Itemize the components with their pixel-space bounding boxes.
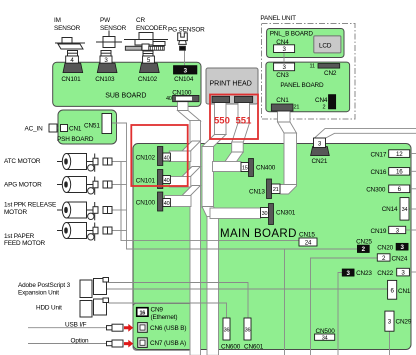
connector CN14 bbox=[400, 198, 409, 221]
Option plug icon bbox=[107, 340, 124, 347]
print head connector 551 bbox=[235, 96, 253, 102]
svg-text:CN301: CN301 bbox=[276, 210, 296, 217]
wire PG sensor to CN104 bbox=[184, 50, 186, 66]
wire CN51 bus to CN25 bbox=[112, 123, 357, 249]
svg-text:PG SENSOR: PG SENSOR bbox=[168, 27, 205, 34]
main board bbox=[133, 144, 411, 350]
ribbon branch to CN301 bbox=[210, 208, 261, 219]
connector CN300 bbox=[389, 185, 410, 193]
connector CN100 (sub) bbox=[173, 95, 199, 101]
svg-text:34: 34 bbox=[322, 335, 328, 341]
svg-text:21: 21 bbox=[273, 187, 279, 193]
svg-text:FEED MOTOR: FEED MOTOR bbox=[4, 240, 46, 247]
svg-text:CN15: CN15 bbox=[299, 232, 315, 239]
wire CN14 to right edge bbox=[409, 208, 416, 210]
connector CN1 (PSH) bbox=[61, 125, 68, 132]
HDD unit connector icon bbox=[80, 298, 109, 317]
connector CN104 (sub, black) bbox=[173, 66, 197, 75]
connector CN100 (main) bbox=[158, 192, 163, 211]
svg-text:SUB BOARD: SUB BOARD bbox=[105, 93, 146, 100]
connector CN24 bbox=[377, 254, 390, 261]
svg-text:16: 16 bbox=[396, 169, 403, 176]
wire CN17 to right edge bbox=[410, 153, 416, 155]
svg-text:USB I/F: USB I/F bbox=[65, 322, 87, 329]
svg-text:36: 36 bbox=[245, 328, 251, 334]
svg-text:CN600: CN600 bbox=[221, 344, 241, 351]
svg-text:40: 40 bbox=[166, 96, 172, 102]
connector CN2 (panel) bbox=[318, 64, 340, 69]
connector CN23 (black) bbox=[342, 269, 354, 276]
sub board bbox=[53, 62, 201, 106]
connector CN102 (main) bbox=[158, 147, 163, 166]
wire USB I/F bbox=[28, 327, 107, 329]
wire CN24 bbox=[311, 258, 378, 355]
connector CN17 bbox=[389, 150, 410, 158]
svg-text:CN500: CN500 bbox=[316, 328, 336, 335]
connector CN16 bbox=[389, 168, 410, 176]
red highlight box print head bbox=[210, 95, 258, 140]
svg-text:CN25: CN25 bbox=[356, 238, 372, 245]
svg-text:CN1: CN1 bbox=[276, 97, 289, 104]
svg-text:CN100: CN100 bbox=[136, 200, 156, 207]
svg-text:CN20: CN20 bbox=[377, 244, 393, 251]
connector CN6 USB B bbox=[138, 323, 148, 333]
svg-text:SENSOR: SENSOR bbox=[100, 25, 127, 32]
panel board bbox=[266, 62, 350, 112]
connector CN29 bbox=[385, 311, 394, 331]
svg-text:CN17: CN17 bbox=[371, 152, 387, 159]
connector CN4 (PNL_B) bbox=[274, 45, 295, 53]
wire AC_IN to PSH board bbox=[57, 127, 60, 129]
connector CN600 bbox=[223, 318, 230, 340]
connector CN21 bbox=[311, 147, 330, 156]
wire CN16 to right edge bbox=[410, 170, 416, 172]
ribbon branch to CN102 bbox=[182, 141, 201, 151]
svg-text:CN104: CN104 bbox=[174, 76, 194, 83]
svg-text:ENCODER: ENCODER bbox=[136, 25, 167, 32]
svg-text:CN601: CN601 bbox=[244, 344, 264, 351]
connector CN9 ethernet bbox=[137, 308, 148, 317]
svg-text:11: 11 bbox=[310, 63, 315, 69]
connector CN1 (panel) bbox=[271, 104, 293, 111]
svg-text:40: 40 bbox=[164, 178, 170, 184]
Adobe PS3 unit connector icon bbox=[80, 278, 109, 298]
svg-text:PRINT HEAD: PRINT HEAD bbox=[210, 81, 252, 88]
svg-text:Expansion Unit: Expansion Unit bbox=[18, 289, 59, 296]
connector CN103 (sub) bbox=[97, 63, 117, 73]
svg-text:CN51: CN51 bbox=[84, 123, 100, 130]
svg-text:PANEL UNIT: PANEL UNIT bbox=[260, 15, 296, 22]
svg-text:40: 40 bbox=[164, 155, 170, 161]
svg-text:MOTOR: MOTOR bbox=[4, 209, 27, 216]
svg-text:CN9: CN9 bbox=[151, 307, 164, 314]
CR encoder icon bbox=[124, 33, 168, 51]
APG motor bbox=[57, 177, 112, 195]
1st paper feed motor bbox=[57, 223, 112, 241]
svg-text:CN100: CN100 bbox=[172, 89, 192, 96]
sensor connector stacks bbox=[68, 51, 154, 57]
svg-text:21: 21 bbox=[294, 105, 300, 111]
connector CN601 bbox=[244, 318, 251, 340]
svg-text:CN7 (USB A): CN7 (USB A) bbox=[150, 340, 186, 347]
svg-text:Option: Option bbox=[71, 338, 90, 345]
wire motor stubs bbox=[112, 161, 127, 163]
PG sensor icon bbox=[178, 33, 188, 50]
svg-text:SENSOR: SENSOR bbox=[54, 25, 81, 32]
wire panel CN4 to CN3 bbox=[283, 53, 285, 64]
wire CN23 bbox=[338, 273, 342, 355]
svg-text:36: 36 bbox=[224, 328, 230, 334]
print head bbox=[206, 68, 258, 104]
PNL_B board bbox=[267, 29, 344, 58]
svg-text:1st PPK RELEASE: 1st PPK RELEASE bbox=[4, 202, 56, 209]
svg-text:34: 34 bbox=[402, 207, 408, 213]
svg-text:CN101: CN101 bbox=[61, 76, 81, 83]
svg-text:ATC MOTOR: ATC MOTOR bbox=[4, 158, 41, 165]
wire Adobe unit to CN1 bbox=[107, 288, 388, 290]
svg-text:PNL_B BOARD: PNL_B BOARD bbox=[270, 31, 314, 38]
svg-text:30: 30 bbox=[262, 211, 268, 217]
svg-text:15: 15 bbox=[242, 165, 248, 171]
USB I/F plug icon bbox=[107, 324, 124, 331]
svg-text:CN3: CN3 bbox=[276, 72, 289, 79]
svg-text:Adobe PostScript 3: Adobe PostScript 3 bbox=[18, 282, 71, 289]
wire motor bus B vertical bbox=[120, 162, 122, 241]
svg-text:CN29: CN29 bbox=[396, 319, 412, 326]
wire CN19 to right edge bbox=[406, 229, 416, 231]
svg-text:1st PAPER: 1st PAPER bbox=[4, 233, 35, 240]
svg-text:LCD: LCD bbox=[319, 43, 332, 50]
svg-text:APG MOTOR: APG MOTOR bbox=[4, 181, 42, 188]
PW sensor icon bbox=[96, 31, 122, 48]
svg-text:CN14: CN14 bbox=[382, 206, 398, 213]
svg-text:CN24: CN24 bbox=[392, 255, 408, 262]
wire motor bus A to CN15 bbox=[121, 162, 299, 241]
connector CN15 bbox=[299, 238, 317, 246]
PSH board bbox=[58, 110, 117, 144]
1st PPK release motor bbox=[57, 202, 112, 220]
wire branch down from CN25 bus bbox=[284, 249, 286, 355]
svg-text:CN6 (USB B): CN6 (USB B) bbox=[150, 325, 186, 332]
svg-text:CN4: CN4 bbox=[315, 97, 328, 104]
USB I/F red arrow bbox=[124, 324, 133, 332]
svg-text:CN22: CN22 bbox=[377, 270, 393, 277]
red highlight box CN102/CN101 bbox=[131, 125, 187, 186]
print head connector 550 bbox=[212, 96, 230, 102]
ribbon cable from sub board CN100 bbox=[178, 101, 189, 111]
ATC motor bbox=[57, 154, 112, 172]
connector CN400 bbox=[241, 163, 249, 172]
ribbon branch to CN101 bbox=[182, 167, 201, 177]
svg-text:16: 16 bbox=[139, 310, 145, 316]
ribbon branch to main CN100 bbox=[182, 186, 201, 196]
connector CN51 (PSH) bbox=[102, 114, 112, 134]
wire CN29 down bbox=[389, 331, 391, 355]
svg-text:CN4: CN4 bbox=[276, 39, 289, 46]
svg-text:CN102: CN102 bbox=[138, 76, 158, 83]
svg-text:CN101: CN101 bbox=[136, 178, 156, 185]
connector AC_IN bbox=[49, 124, 57, 132]
ribbon cable from print head 550 bbox=[215, 103, 227, 135]
connector CN25 (black) bbox=[357, 245, 369, 253]
svg-text:CN2: CN2 bbox=[324, 70, 337, 77]
svg-text:CN23: CN23 bbox=[356, 270, 372, 277]
svg-text:(Ethernet): (Ethernet) bbox=[151, 314, 178, 321]
svg-text:24: 24 bbox=[305, 239, 312, 246]
wire HDD to CN600 bbox=[109, 303, 227, 318]
LCD bbox=[314, 36, 341, 53]
connector CN101 (sub) bbox=[63, 63, 83, 73]
svg-text:CN13: CN13 bbox=[249, 189, 265, 196]
svg-text:PW: PW bbox=[100, 17, 111, 24]
svg-text:2: 2 bbox=[323, 105, 326, 111]
svg-text:12: 12 bbox=[396, 151, 403, 158]
wires CN21 off right edge bbox=[315, 129, 416, 138]
svg-text:CN1: CN1 bbox=[398, 288, 411, 295]
connector CN301 bbox=[261, 208, 269, 218]
svg-text:CN102: CN102 bbox=[136, 155, 156, 162]
svg-text:CN103: CN103 bbox=[95, 76, 115, 83]
svg-text:CN300: CN300 bbox=[366, 187, 386, 194]
svg-text:40: 40 bbox=[164, 201, 170, 207]
wire CN300 to right edge bbox=[410, 188, 416, 190]
ribbon from panel board CN1 to CN13 bbox=[278, 111, 291, 122]
Option red arrow bbox=[124, 340, 133, 348]
svg-text:PSH BOARD: PSH BOARD bbox=[57, 136, 94, 143]
connector CN19 bbox=[389, 226, 406, 233]
svg-text:CN21: CN21 bbox=[312, 158, 328, 165]
connector CN22 bbox=[397, 268, 410, 276]
svg-text:CN19: CN19 bbox=[371, 228, 387, 235]
wire Option bbox=[28, 343, 107, 345]
connector CN7 USB A bbox=[138, 338, 148, 348]
svg-text:CN16: CN16 bbox=[371, 169, 387, 176]
connector CN3 (panel) bbox=[274, 63, 295, 71]
wire Adobe unit to CN601 bbox=[109, 283, 249, 319]
svg-text:551: 551 bbox=[236, 116, 253, 127]
connector CN1 (main) bbox=[388, 280, 397, 299]
panel unit dashed frame bbox=[262, 24, 356, 120]
svg-text:AC_IN: AC_IN bbox=[25, 126, 44, 133]
svg-text:550: 550 bbox=[214, 116, 230, 127]
connector CN20 (black) bbox=[396, 243, 408, 250]
connector CN102 (sub) bbox=[140, 63, 160, 73]
svg-text:IM: IM bbox=[54, 17, 61, 24]
svg-text:PANEL BOARD: PANEL BOARD bbox=[280, 82, 324, 89]
svg-text:CR: CR bbox=[136, 17, 145, 24]
connector CN4 (panel, black) bbox=[328, 95, 335, 110]
IM sensor icon bbox=[55, 38, 85, 50]
connector CN101 (main) bbox=[158, 170, 163, 189]
svg-text:MAIN BOARD: MAIN BOARD bbox=[220, 228, 297, 240]
svg-text:HDD Unit: HDD Unit bbox=[36, 305, 62, 312]
svg-text:CN1: CN1 bbox=[69, 126, 82, 133]
connector CN500 bbox=[315, 334, 335, 340]
connector CN13 bbox=[267, 179, 272, 199]
wire CN22 to right edge bbox=[409, 271, 416, 273]
interface area outline bbox=[133, 303, 192, 350]
svg-text:CN400: CN400 bbox=[256, 165, 276, 172]
ribbon cable from print head 551 to CN400 bbox=[238, 103, 250, 124]
